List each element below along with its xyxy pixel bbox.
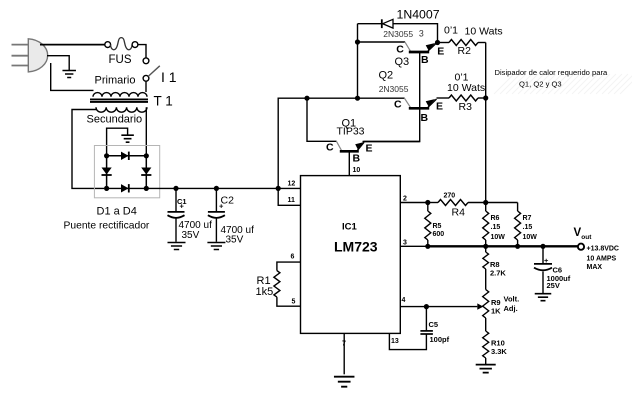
diode 1N4007 xyxy=(358,8,440,43)
node pin4/C5 xyxy=(424,304,429,309)
resistor R1 xyxy=(256,271,280,298)
svg-text:6: 6 xyxy=(291,254,295,261)
svg-text:35V: 35V xyxy=(182,230,200,241)
resistor R10 xyxy=(483,318,508,364)
node bridge corners xyxy=(104,153,109,158)
capacitor C1 xyxy=(168,188,213,241)
capacitor C5 xyxy=(420,307,449,344)
svg-text:C: C xyxy=(326,142,334,154)
wire plug to primary xyxy=(51,63,94,90)
svg-text:11: 11 xyxy=(288,197,296,204)
ground plug earth xyxy=(47,56,76,78)
resistor R4 xyxy=(428,193,486,219)
wire pin 7 xyxy=(343,333,345,374)
wire pin 3 to Vout xyxy=(400,245,428,247)
ground C6 xyxy=(535,294,552,301)
svg-text:.15: .15 xyxy=(491,224,501,231)
diode D3 right xyxy=(141,156,151,189)
wire pin 4 xyxy=(400,306,477,308)
svg-text:C5: C5 xyxy=(429,320,439,329)
svg-text:.15: .15 xyxy=(523,224,533,231)
svg-text:IC1: IC1 xyxy=(342,222,358,233)
svg-text:+: + xyxy=(180,202,185,211)
svg-text:+13.8VDC: +13.8VDC xyxy=(587,246,620,253)
node C1 xyxy=(173,186,178,191)
wire switch to primary right xyxy=(145,81,147,92)
pin 11 wire xyxy=(278,188,300,205)
svg-text:out: out xyxy=(581,234,592,241)
svg-text:3: 3 xyxy=(419,28,424,38)
svg-text:10W: 10W xyxy=(523,234,538,241)
wire main DC rail xyxy=(107,187,301,189)
svg-text:B: B xyxy=(421,112,429,124)
svg-text:Q3: Q3 xyxy=(395,56,410,68)
svg-text:T 1: T 1 xyxy=(154,94,173,109)
svg-text:2N3055: 2N3055 xyxy=(379,84,409,94)
svg-text:E: E xyxy=(366,143,373,155)
resistor R7 xyxy=(515,203,538,247)
svg-text:5: 5 xyxy=(292,299,296,306)
svg-text:3.3K: 3.3K xyxy=(491,347,507,356)
transistor Q3 2N3055 xyxy=(358,28,445,68)
svg-text:B: B xyxy=(421,54,429,66)
diode D1 top xyxy=(107,152,147,160)
node Q3 rail branch xyxy=(355,96,360,101)
wire pin 5 xyxy=(277,297,301,306)
node R7 bottom xyxy=(515,244,520,249)
wire secondary left down to bridge xyxy=(72,110,104,189)
wire R7 top link xyxy=(486,202,518,204)
wire pin 2 xyxy=(400,202,428,204)
svg-text:LM723: LM723 xyxy=(334,239,378,255)
wire pin 13 xyxy=(389,333,426,349)
ground R10 xyxy=(476,365,496,373)
bridge rectifier box xyxy=(94,146,159,198)
svg-text:R3: R3 xyxy=(459,101,473,113)
node R4 right xyxy=(483,200,488,205)
svg-text:Volt.: Volt. xyxy=(504,295,520,304)
node C2 xyxy=(214,186,219,191)
transformer T1 xyxy=(87,75,173,126)
svg-text:C: C xyxy=(394,99,402,111)
svg-text:FUS: FUS xyxy=(109,54,132,66)
svg-text:TIP33: TIP33 xyxy=(337,126,365,138)
resistor R8 xyxy=(483,246,507,289)
svg-text:600: 600 xyxy=(433,231,445,238)
potentiometer R9 xyxy=(477,290,519,319)
svg-text:4: 4 xyxy=(402,297,406,304)
svg-text:13: 13 xyxy=(391,338,399,345)
svg-text:C: C xyxy=(396,43,404,55)
svg-text:35V: 35V xyxy=(226,235,244,246)
svg-text:10: 10 xyxy=(353,167,361,174)
wire right rail xyxy=(485,43,487,203)
heatsink note xyxy=(495,68,608,88)
node Q1 collector branch xyxy=(304,96,309,101)
resistor R6 xyxy=(483,203,506,247)
node C6 xyxy=(540,244,545,249)
node R6 bottom xyxy=(483,244,488,249)
node pin3 xyxy=(425,244,430,249)
resistor R3 xyxy=(437,72,486,114)
fuse FUS xyxy=(105,38,138,66)
svg-text:Adj.: Adj. xyxy=(504,304,518,313)
svg-text:E: E xyxy=(437,46,444,58)
transistor Q2 2N3055 xyxy=(379,70,444,125)
ground C2 xyxy=(207,243,225,250)
svg-text:100pf: 100pf xyxy=(430,335,450,344)
resistor R5 xyxy=(425,203,444,247)
svg-text:12: 12 xyxy=(288,181,296,188)
ground C1 xyxy=(168,243,186,250)
svg-text:I 1: I 1 xyxy=(161,69,177,85)
pin 10 wire xyxy=(348,152,350,176)
svg-text:10 Wats: 10 Wats xyxy=(447,82,485,94)
wire shared base xyxy=(363,53,420,142)
wire plug to fuse xyxy=(40,44,105,46)
svg-text:3: 3 xyxy=(403,240,407,247)
AC plug xyxy=(12,39,48,72)
svg-text:R2: R2 xyxy=(458,45,472,57)
capacitor C2 xyxy=(208,188,254,245)
wire pin 6 xyxy=(277,262,301,271)
svg-text:Secundario: Secundario xyxy=(87,114,143,126)
wire fuse to switch xyxy=(138,45,146,58)
svg-text:0’1: 0’1 xyxy=(444,25,458,37)
svg-text:1K: 1K xyxy=(491,307,501,316)
switch I1 xyxy=(143,58,177,85)
diode D2 left xyxy=(102,156,112,189)
svg-text:2N3055: 2N3055 xyxy=(383,29,413,39)
wire 1N4007 rail xyxy=(357,24,359,99)
terminal Vout xyxy=(574,227,620,271)
node rail junction xyxy=(276,186,281,191)
node pin2 xyxy=(425,200,430,205)
svg-text:Primario: Primario xyxy=(95,75,136,87)
wire secondary right down to bridge xyxy=(145,107,147,156)
svg-text:E: E xyxy=(436,101,443,113)
capacitor C6 xyxy=(534,246,571,293)
svg-text:Disipador de calor requerido p: Disipador de calor requerido para xyxy=(495,68,608,77)
op-amp IC1 LM723 xyxy=(301,176,401,334)
svg-text:D1 a D4: D1 a D4 xyxy=(97,206,137,218)
ground pin 7 xyxy=(334,377,355,387)
svg-text:B: B xyxy=(353,153,361,165)
svg-text:+: + xyxy=(219,202,224,211)
svg-text:+: + xyxy=(544,256,549,265)
svg-text:Q1, Q2 y Q3: Q1, Q2 y Q3 xyxy=(519,79,562,88)
node R3 junction xyxy=(483,95,488,100)
svg-text:10W: 10W xyxy=(491,234,506,241)
svg-text:1k5: 1k5 xyxy=(256,286,274,298)
svg-text:MAX: MAX xyxy=(587,264,603,271)
svg-text:Puente rectificador: Puente rectificador xyxy=(64,221,150,232)
diode D4 bottom xyxy=(121,184,129,192)
svg-text:R7: R7 xyxy=(523,215,532,222)
wire collector rail xyxy=(278,98,404,188)
ground bridge center tap xyxy=(107,128,134,156)
svg-text:R5: R5 xyxy=(433,223,442,230)
svg-text:2: 2 xyxy=(403,196,407,203)
svg-text:Q2: Q2 xyxy=(379,70,394,82)
svg-text:25V: 25V xyxy=(547,281,560,290)
bridge labels xyxy=(64,206,150,232)
svg-text:10 AMPS: 10 AMPS xyxy=(587,256,617,263)
svg-text:V: V xyxy=(574,227,582,239)
svg-text:7: 7 xyxy=(342,341,346,348)
transistor Q1 TIP33 xyxy=(307,98,420,164)
svg-text:R6: R6 xyxy=(491,215,500,222)
svg-text:2.7K: 2.7K xyxy=(490,269,506,278)
svg-text:10 Wats: 10 Wats xyxy=(465,26,503,38)
node Q3 emitter xyxy=(435,40,440,45)
svg-text:270: 270 xyxy=(444,193,456,200)
resistor R2 xyxy=(438,25,503,58)
svg-text:R4: R4 xyxy=(452,207,466,219)
node diode left xyxy=(355,39,360,44)
svg-text:1N4007: 1N4007 xyxy=(397,8,440,22)
